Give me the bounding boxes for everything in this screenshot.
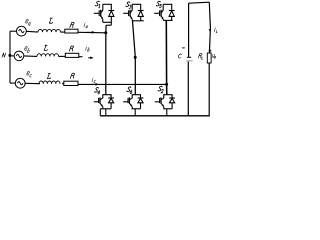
junction node phase b / leg 2 — [134, 56, 137, 59]
label ib — [86, 46, 87, 51]
label iL — [214, 27, 215, 32]
wire: phase a resistor to bridge leg 1 — [78, 31, 106, 34]
wire: leg 1 vertical — [105, 25, 107, 95]
label S1 — [95, 1, 99, 6]
AC source ea (phase a EMF) — [17, 26, 27, 36]
wire: bottom bus left corner riser — [99, 109, 101, 116]
label ec (phase c EMF) — [27, 71, 30, 75]
wire: phase c from source to inductor — [25, 82, 40, 84]
label S6 — [127, 87, 131, 92]
label C — [178, 54, 182, 58]
label eb (phase b EMF) — [24, 47, 27, 51]
resistor R (phase a) — [65, 29, 78, 33]
wire: S4 emitter to bottom bus — [105, 109, 107, 116]
IGBT S2 with antiparallel diode (lower cell, leg x=166.8) — [155, 95, 175, 109]
wire: cell S4 bottom wire extension to corner — [100, 108, 102, 110]
wire: leg 2 vertical — [133, 21, 136, 95]
capacitor C — [186, 57, 193, 61]
inductor L (phase c) — [39, 81, 60, 84]
wire: phase b resistor stub — [79, 56, 83, 58]
label ea (phase a EMF) — [25, 19, 28, 23]
wire: load branch bottom lead — [208, 63, 210, 116]
wire: capacitor bottom lead — [187, 62, 189, 116]
wire: phase c inductor to resistor — [62, 83, 64, 85]
IGBT S6 with antiparallel diode (lower cell, leg x=135.2) — [123, 95, 143, 109]
resistor R (phase b) — [65, 53, 79, 57]
label R (R (phase a) value) — [70, 22, 74, 27]
label L (L (phase a) value) — [49, 18, 53, 23]
AC source ec (phase c EMF) — [15, 78, 25, 88]
wire: phase c resistor to bridge leg 3 — [78, 83, 167, 85]
label ic — [92, 77, 93, 82]
resistor RL (load) — [207, 53, 211, 63]
label L (L (phase b) value) — [44, 45, 48, 50]
label R (R (phase b) value) — [69, 46, 73, 51]
current arrow ic — [90, 83, 99, 86]
label ia — [84, 22, 85, 27]
label L (L (phase c) value) — [47, 74, 51, 79]
wire: negative DC bus (bottom) — [100, 115, 209, 117]
wire: phase b inductor to resistor — [59, 55, 66, 57]
current arrow ia — [87, 31, 96, 34]
junction node N — [8, 54, 11, 57]
AC source eb (phase b EMF) — [14, 51, 24, 61]
wire: leg 3 vertical — [165, 20, 168, 94]
inductor L (phase a) — [38, 29, 61, 32]
inductor L (phase b) — [37, 54, 58, 57]
IGBT S3 with antiparallel diode (upper cell, leg x=135.2) — [123, 4, 144, 21]
label R (R (phase c) value) — [70, 73, 74, 78]
label S4 — [94, 88, 98, 93]
wire: S2 emitter to bottom bus — [166, 109, 168, 116]
wire: capacitor top lead — [188, 3, 190, 57]
wire: source ec left lead — [10, 82, 15, 84]
label S2 — [158, 86, 162, 91]
label S3 — [126, 2, 130, 7]
wire: neutral bus vertical — [9, 31, 11, 83]
IGBT S1 with antiparallel diode (upper cell, leg x=105.8) — [94, 4, 114, 25]
wire: phase a from source to inductor — [26, 30, 38, 33]
wire: S6 emitter to bottom bus — [134, 109, 136, 116]
capacitor polarity mark — [182, 47, 185, 49]
junction node phase c / leg 3 — [165, 83, 168, 86]
wire: phase b from source to inductor — [24, 55, 37, 58]
wire: load branch top lead — [209, 2, 210, 53]
label uo — [212, 54, 214, 57]
label N — [2, 53, 6, 57]
wire: positive DC bus right segment — [189, 2, 210, 3]
junction node phase a / leg 1 — [104, 31, 107, 34]
label RL — [198, 54, 202, 58]
current arrow iL (load) — [209, 29, 212, 32]
resistor R (phase c) — [64, 81, 78, 85]
IGBT S5 with antiparallel diode (upper cell, leg x=166.2) — [154, 4, 174, 20]
label S5 — [156, 1, 160, 6]
current arrow ib — [88, 56, 94, 59]
IGBT S4 with antiparallel diode (lower cell, leg x=105.8) — [94, 95, 114, 109]
wire: source ea left lead — [10, 30, 17, 32]
wire: phase a inductor to resistor — [61, 31, 65, 33]
wire: source eb left lead — [10, 55, 14, 57]
load polarity mark + — [209, 50, 212, 53]
